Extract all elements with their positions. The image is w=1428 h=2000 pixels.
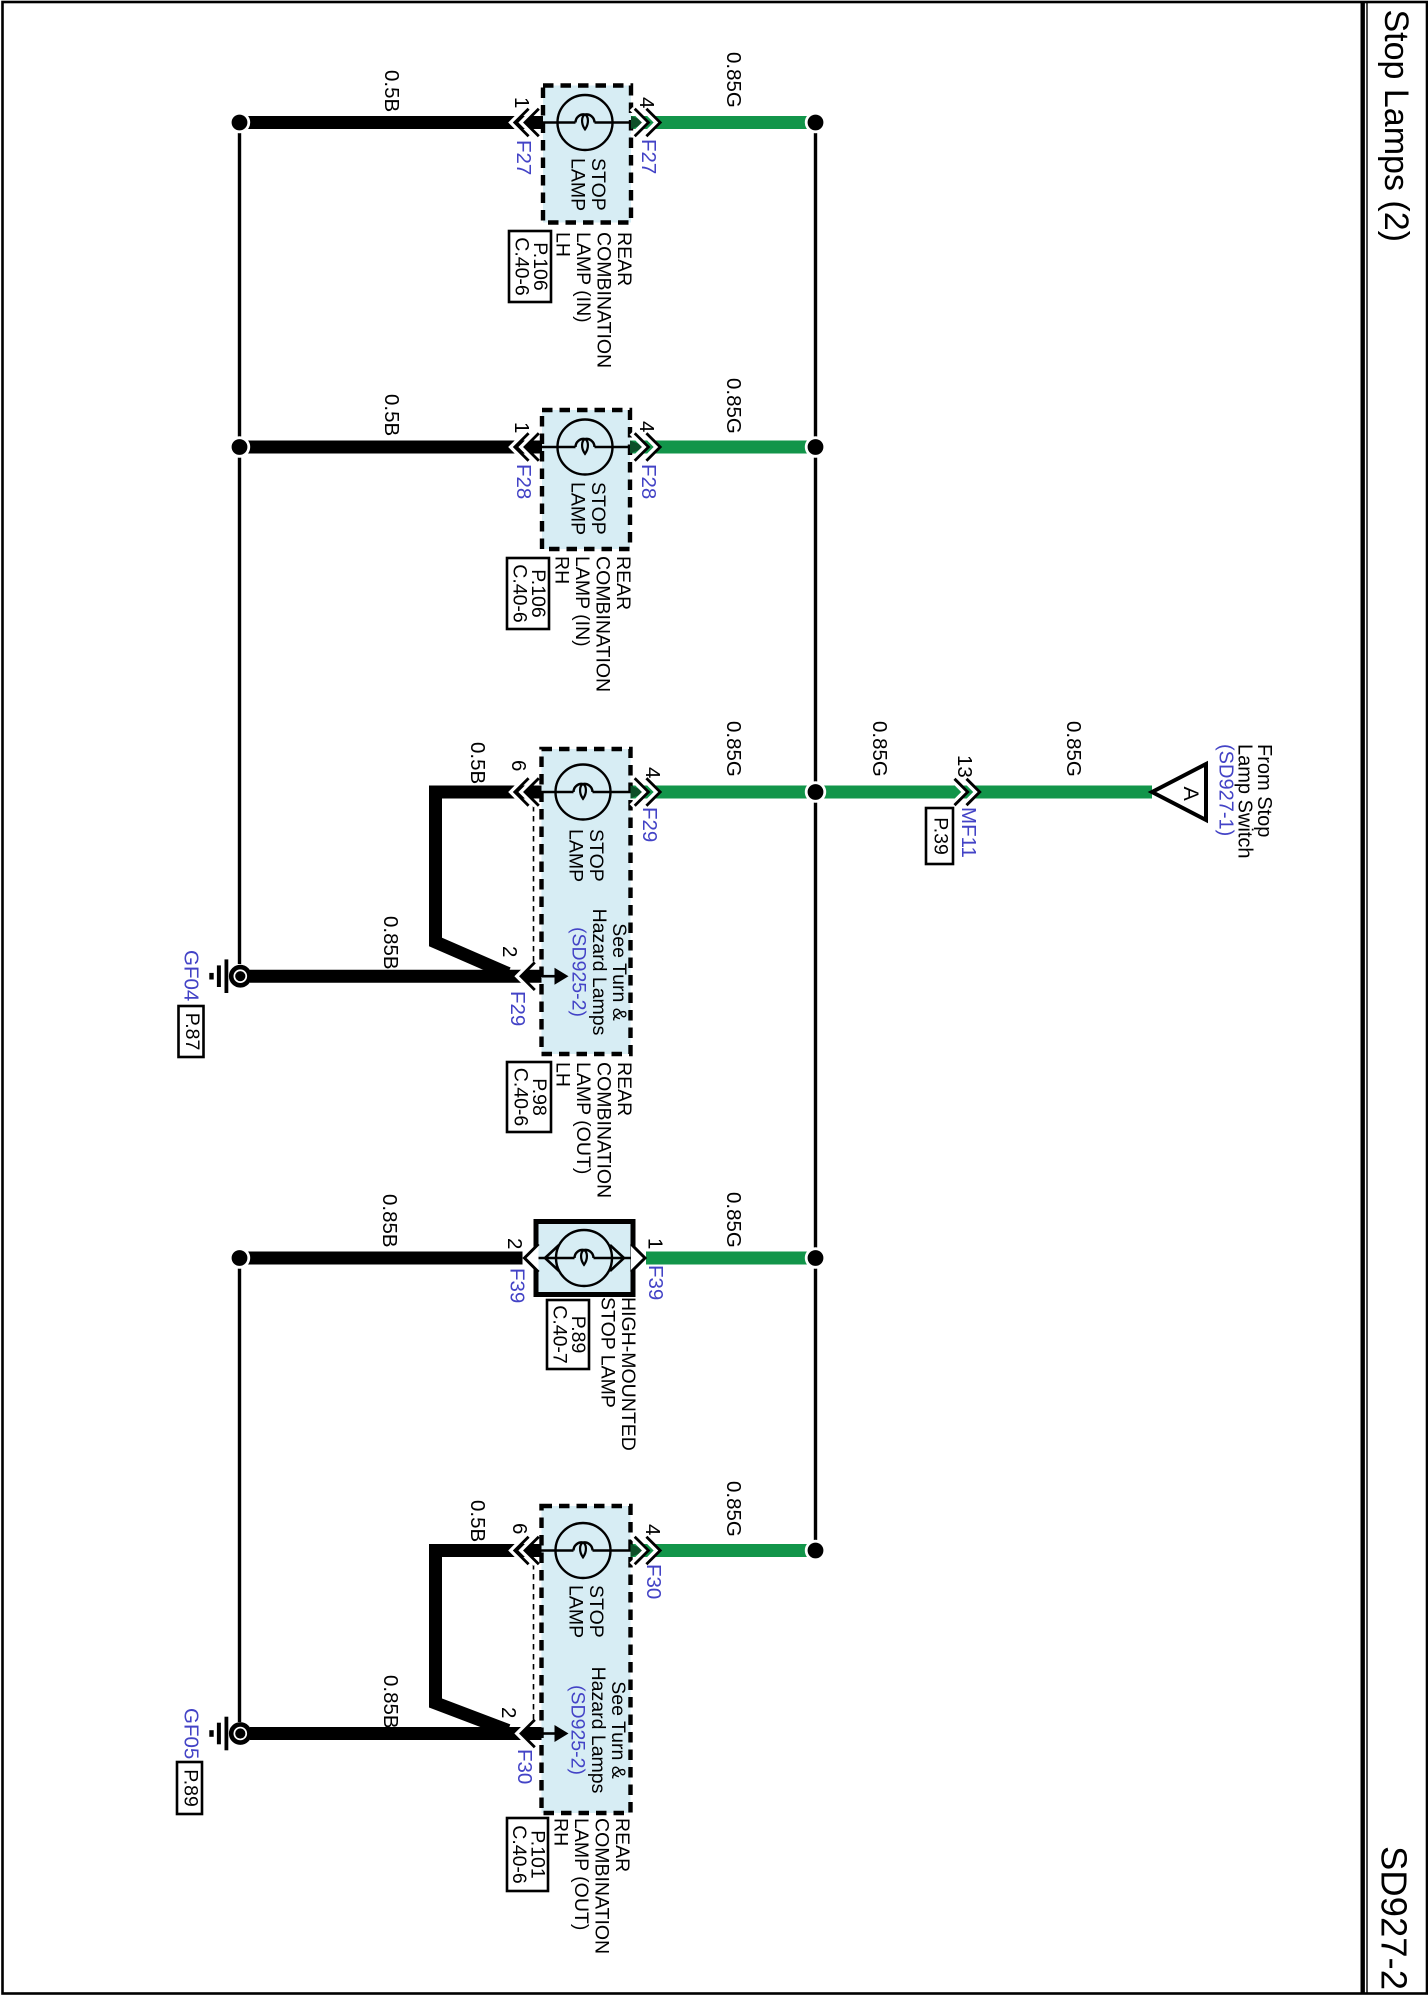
- svg-text:C.40-7: C.40-7: [549, 1305, 571, 1364]
- connector pin 6 F30 (male): [522, 1537, 536, 1565]
- svg-text:1: 1: [510, 97, 533, 108]
- svg-text:REAR: REAR: [613, 1062, 635, 1116]
- connector pin 4 F29 (male): [631, 778, 645, 806]
- stop lamp F30 box (REAR COMBINATION LAMP (OUT) RH): [542, 1506, 631, 1813]
- svg-text:LAMP: LAMP: [565, 1585, 587, 1638]
- svg-text:13: 13: [953, 755, 976, 778]
- connector wedge pin 4 F28: [630, 441, 647, 454]
- connector MF11 mark a: [951, 779, 964, 805]
- svg-text:See Turn &: See Turn &: [607, 1681, 629, 1779]
- svg-text:See Turn &: See Turn &: [608, 923, 630, 1021]
- connector wedge pin 4 F29: [631, 786, 648, 799]
- svg-text:4: 4: [641, 1524, 664, 1535]
- svg-text:F39: F39: [506, 1268, 529, 1303]
- svg-text:1: 1: [510, 422, 533, 433]
- ref box P.89 GF05: [177, 1762, 202, 1814]
- connector pin 1 F39 (female chevron): [631, 1244, 645, 1272]
- svg-text:F28: F28: [512, 464, 535, 499]
- svg-text:2: 2: [497, 1707, 520, 1718]
- connector pin 4 F28 (female): [643, 433, 657, 461]
- junction row4 left: [230, 1249, 249, 1268]
- connector pin 2 F29 (female): [518, 962, 532, 990]
- svg-text:P.89: P.89: [179, 1769, 201, 1807]
- ref box P.39: [926, 808, 953, 864]
- junction row4 right: [806, 1249, 825, 1268]
- svg-text:LAMP: LAMP: [567, 158, 589, 211]
- svg-text:C.40-6: C.40-6: [510, 1068, 532, 1127]
- svg-text:(SD927-1): (SD927-1): [1214, 744, 1236, 836]
- svg-text:6: 6: [508, 1523, 531, 1534]
- high-mounted stop lamp F39 box: [536, 1222, 633, 1295]
- connector wedge pin 4 F30: [631, 1544, 648, 1557]
- svg-text:STOP: STOP: [585, 829, 607, 882]
- svg-text:COMBINATION: COMBINATION: [593, 232, 615, 368]
- stop lamp F29 box (REAR COMBINATION LAMP (OUT) LH): [542, 749, 631, 1054]
- off-page arrow A (from stop lamp switch): [1152, 764, 1206, 820]
- svg-text:C.40-6: C.40-6: [508, 1825, 530, 1884]
- svg-text:F30: F30: [642, 1564, 665, 1599]
- svg-text:LAMP (OUT): LAMP (OUT): [572, 1062, 594, 1174]
- svg-text:COMBINATION: COMBINATION: [592, 556, 614, 692]
- wire 0.85G row4: [646, 1252, 816, 1265]
- svg-text:F30: F30: [513, 1749, 536, 1784]
- junction row5 right: [806, 1541, 825, 1560]
- wire 0.5B row5 (pin 6 loop): [436, 1551, 542, 1731]
- svg-text:P.87: P.87: [181, 1013, 203, 1051]
- connector pin 2 F30 (female): [518, 1720, 532, 1748]
- inner dashed boundary row5: [533, 1564, 535, 1721]
- connector pin 4 F29 (female): [643, 778, 657, 806]
- junction row2 left: [230, 438, 249, 457]
- wire 0.5B row1: [244, 116, 543, 129]
- svg-text:GF04: GF04: [180, 950, 203, 1001]
- connector pin 1 F27 (female): [511, 109, 525, 137]
- connector pin 4 F30 (female): [643, 1537, 657, 1565]
- ref box P.101 C.40-6: [507, 1818, 548, 1891]
- svg-text:2: 2: [498, 946, 521, 957]
- svg-text:RH: RH: [551, 556, 573, 584]
- svg-text:0.5B: 0.5B: [380, 70, 403, 112]
- svg-text:LAMP (IN): LAMP (IN): [572, 232, 594, 323]
- svg-text:F29: F29: [506, 991, 529, 1026]
- svg-text:6: 6: [507, 760, 530, 771]
- bulb STOP LAMP F29: [556, 765, 611, 820]
- svg-text:0.85G: 0.85G: [1062, 721, 1085, 777]
- svg-text:LAMP: LAMP: [567, 482, 589, 535]
- inner arrow marks F39: [545, 1245, 559, 1271]
- connector pin 6 F29 (female): [511, 778, 525, 806]
- bulb STOP LAMP F28: [558, 420, 613, 475]
- svg-text:LAMP: LAMP: [565, 829, 587, 882]
- ref box P.106 C.40-6 row2: [507, 558, 549, 629]
- svg-text:F27: F27: [512, 140, 535, 175]
- connector pin 4 F30 (male): [631, 1537, 645, 1565]
- svg-text:0.85G: 0.85G: [722, 721, 745, 777]
- svg-text:C.40-6: C.40-6: [511, 237, 533, 296]
- svg-text:REAR: REAR: [611, 1818, 633, 1872]
- junction row3 right: [806, 783, 825, 802]
- svg-text:4: 4: [635, 97, 658, 108]
- wire 0.85G row3: [631, 786, 1153, 799]
- stop lamp F28 box (REAR COMBINATION LAMP (IN) RH): [542, 410, 630, 549]
- svg-text:2: 2: [503, 1238, 526, 1249]
- connector MF11 mark b: [963, 779, 976, 805]
- svg-text:F28: F28: [637, 464, 660, 499]
- svg-text:MF11: MF11: [957, 807, 980, 858]
- svg-text:0.5B: 0.5B: [380, 394, 403, 436]
- internal arrow to turn/hazard row5: [555, 1725, 569, 1742]
- title block divider line: [1361, 2, 1365, 1993]
- junction row1 left: [230, 113, 249, 132]
- stop lamp F27 box (REAR COMBINATION LAMP (IN) LH): [543, 86, 631, 223]
- connector pin 1 F28 (female): [511, 433, 525, 461]
- svg-text:1: 1: [644, 1238, 667, 1249]
- svg-text:STOP: STOP: [587, 158, 609, 211]
- left ground bus wire (row 4 to GF05): [238, 1258, 241, 1722]
- wire 0.85B row3 (ground): [250, 970, 542, 983]
- svg-text:0.85G: 0.85G: [868, 721, 891, 777]
- svg-text:(SD925-2): (SD925-2): [568, 927, 590, 1017]
- ground GF05: [231, 1724, 249, 1742]
- wire 0.85B row4: [244, 1252, 523, 1265]
- svg-text:F39: F39: [644, 1265, 667, 1300]
- svg-text:0.85G: 0.85G: [722, 52, 745, 108]
- ref box P.87: [179, 1006, 204, 1057]
- svg-text:4: 4: [635, 421, 658, 432]
- bulb STOP LAMP F27: [558, 95, 613, 150]
- svg-text:A: A: [1179, 787, 1203, 802]
- svg-text:F29: F29: [638, 807, 661, 842]
- svg-text:LAMP (IN): LAMP (IN): [571, 556, 593, 647]
- svg-text:LH: LH: [552, 1062, 574, 1087]
- connector pin 4 F27 (male): [631, 109, 645, 137]
- junction row1 right: [806, 113, 825, 132]
- svg-text:Hazard Lamps: Hazard Lamps: [588, 909, 610, 1036]
- svg-text:0.85B: 0.85B: [378, 1194, 401, 1248]
- svg-text:Hazard Lamps: Hazard Lamps: [587, 1667, 609, 1794]
- wire 0.85G row1: [631, 116, 816, 129]
- inner dashed boundary row3: [533, 806, 535, 964]
- svg-text:P.39: P.39: [929, 817, 951, 855]
- svg-text:0.85G: 0.85G: [722, 1481, 745, 1537]
- ref box P.98 C.40-6: [507, 1062, 551, 1132]
- svg-text:0.85G: 0.85G: [722, 1192, 745, 1248]
- internal arrow to turn/hazard row3: [555, 968, 569, 985]
- svg-text:0.85B: 0.85B: [379, 1675, 402, 1729]
- connector pin 2 F30: [542, 1732, 555, 1735]
- connector pin 1 F28 (male): [522, 433, 536, 461]
- svg-text:RH: RH: [550, 1818, 572, 1846]
- svg-text:LH: LH: [552, 232, 574, 257]
- svg-text:STOP: STOP: [585, 1585, 607, 1638]
- svg-text:C.40-6: C.40-6: [509, 564, 531, 623]
- svg-text:0.85G: 0.85G: [722, 378, 745, 434]
- svg-text:STOP: STOP: [587, 482, 609, 535]
- bulb STOP LAMP F30: [556, 1523, 611, 1578]
- svg-text:REAR: REAR: [613, 232, 635, 286]
- connector pin 2 F29: [542, 975, 555, 978]
- svg-text:LAMP (OUT): LAMP (OUT): [570, 1818, 592, 1930]
- svg-text:0.5B: 0.5B: [466, 742, 489, 784]
- svg-text:4: 4: [641, 767, 664, 778]
- connector pin 6 F30 (female): [511, 1537, 525, 1565]
- bulb HIGH-MOUNTED STOP LAMP: [556, 1230, 612, 1286]
- connector pin 2 F39 (female chevron): [525, 1244, 539, 1272]
- wire 0.5B row2: [244, 441, 542, 454]
- connector pin 4 F27 (female): [643, 109, 657, 137]
- svg-text:COMBINATION: COMBINATION: [593, 1062, 615, 1198]
- svg-text:REAR: REAR: [612, 556, 634, 610]
- svg-text:0.5B: 0.5B: [466, 1500, 489, 1542]
- ground GF04: [231, 967, 249, 985]
- junction row2 right: [806, 438, 825, 457]
- connector pin 1 F27 (male): [522, 109, 536, 137]
- connector wedge pin 4 F27: [631, 116, 648, 129]
- svg-text:F27: F27: [637, 139, 660, 174]
- svg-text:COMBINATION: COMBINATION: [591, 1818, 613, 1954]
- svg-text:GF05: GF05: [180, 1708, 203, 1759]
- svg-text:Stop Lamps (2): Stop Lamps (2): [1377, 10, 1415, 242]
- svg-text:HIGH-MOUNTED: HIGH-MOUNTED: [617, 1297, 639, 1451]
- connector pin 6 F29 (male): [522, 778, 536, 806]
- ref box P.106 C.40-6 row1: [509, 231, 551, 302]
- ref box P.89 C.40-7: [547, 1300, 589, 1369]
- svg-text:SD927-2: SD927-2: [1374, 1846, 1415, 1990]
- svg-text:STOP LAMP: STOP LAMP: [597, 1297, 619, 1408]
- connector pin 4 F28 (male): [631, 433, 645, 461]
- wire 0.85B row5 (ground): [250, 1727, 542, 1740]
- right supply bus wire (green feed): [814, 122, 817, 1549]
- wire 0.5B row3 (pin 6 loop): [436, 792, 542, 974]
- svg-text:0.85B: 0.85B: [379, 916, 402, 970]
- svg-text:(SD925-2): (SD925-2): [567, 1685, 589, 1775]
- left ground bus wire (rows 1-2 to GF04): [238, 122, 241, 964]
- wire 0.85G row5: [631, 1544, 817, 1557]
- wire 0.85G row2: [630, 441, 816, 454]
